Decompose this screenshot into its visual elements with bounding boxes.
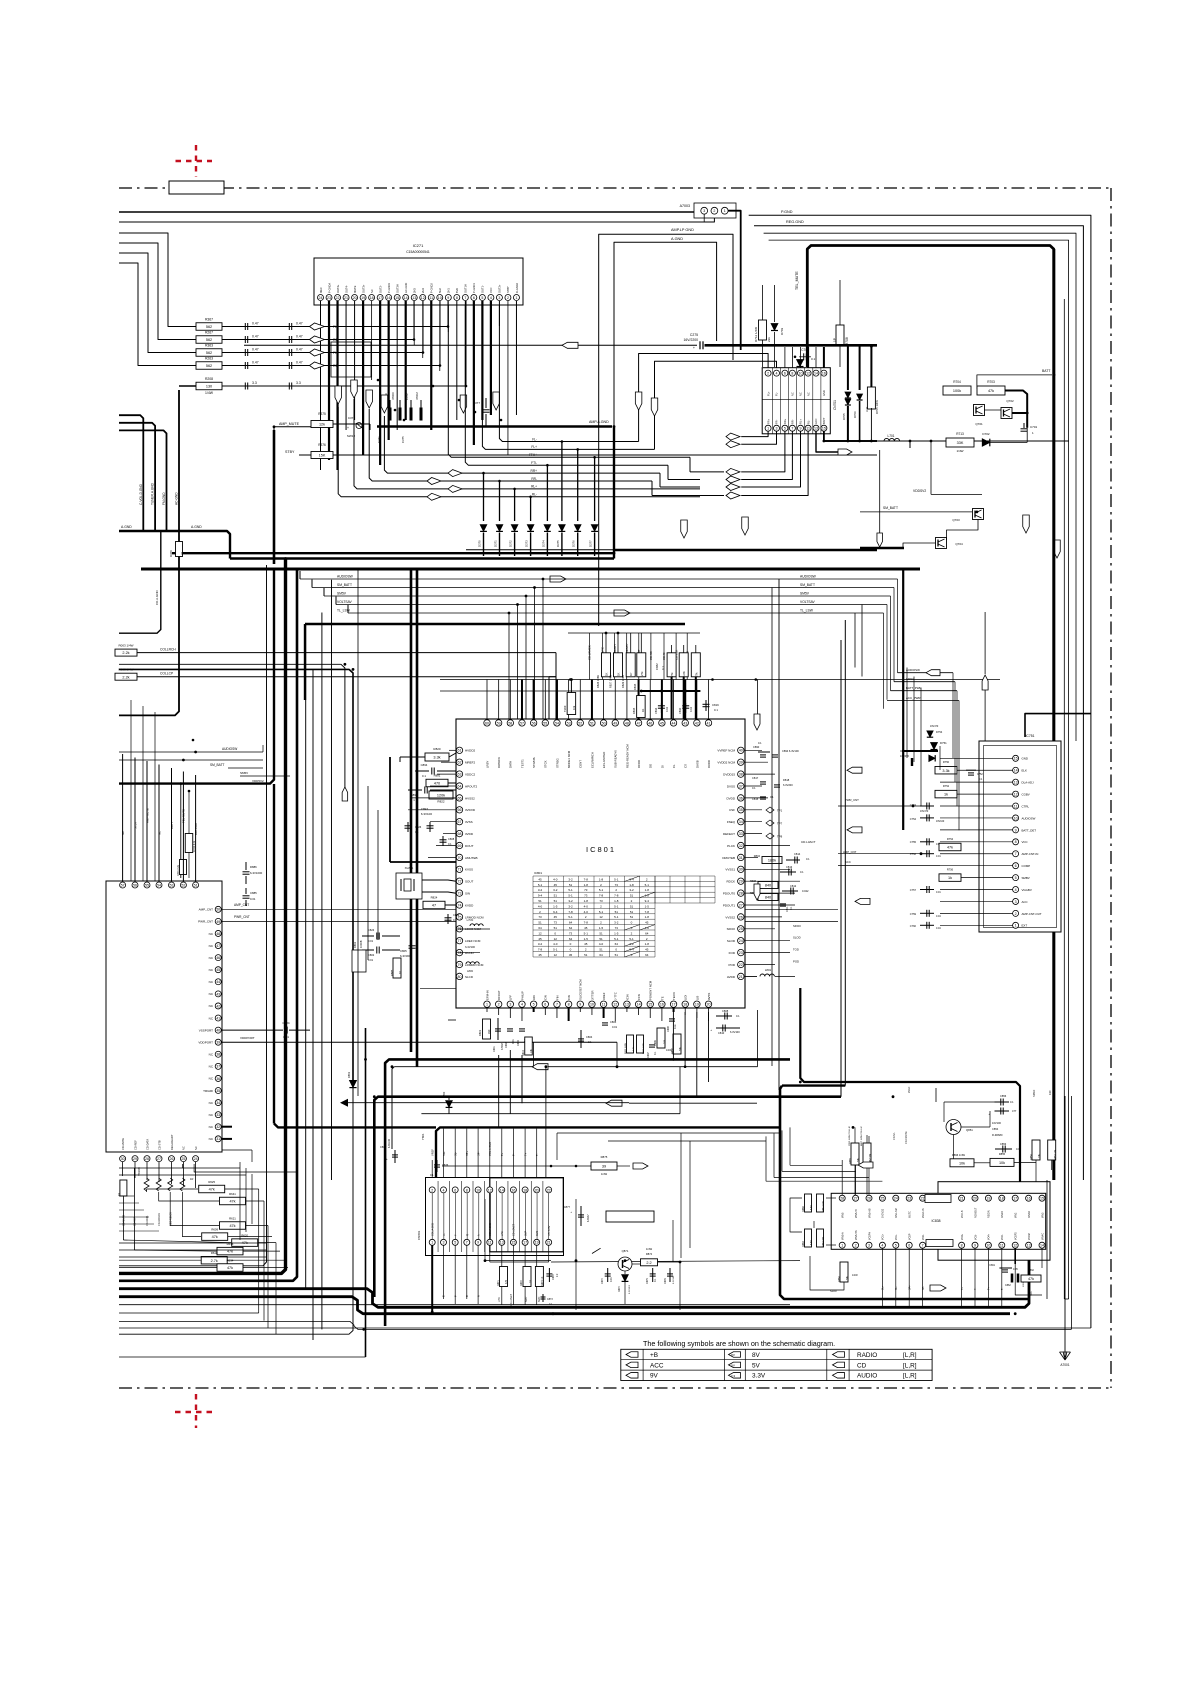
left block bottom pins [120, 1156, 126, 1162]
diode D750 [931, 743, 938, 750]
diode D752 [929, 755, 935, 761]
capacitor C814 [786, 859, 800, 861]
svg-text:45: 45 [538, 877, 542, 881]
pin IC801 48 [624, 720, 630, 726]
svg-text:L801: L801 [765, 968, 772, 972]
arrow bus diamonds [448, 470, 462, 477]
svg-text:37: 37 [216, 1065, 220, 1069]
svg-text:TUNER.A.GND: TUNER.A.GND [151, 482, 155, 505]
pin IC801 15 [647, 1001, 653, 1007]
wire q871 net [485, 1260, 551, 1262]
svg-text:D754: D754 [936, 730, 943, 734]
svg-text:10: 10 [438, 296, 442, 300]
svg-text:71: 71 [458, 868, 462, 872]
svg-text:PLCK: PLCK [727, 844, 735, 848]
pin left block top 56 [132, 882, 138, 888]
legend row 3 arrow3 [833, 1373, 845, 1379]
pin IC801 37 [738, 783, 744, 789]
svg-text:7: 7 [791, 427, 793, 431]
svg-text:53: 53 [170, 883, 174, 887]
svg-text:C882: C882 [655, 663, 659, 670]
svg-text:26: 26 [739, 915, 743, 919]
svg-text:R701 2.2k: R701 2.2k [177, 864, 180, 876]
svg-text:A.GND: A.GND [671, 237, 683, 241]
svg-text:VO2P: VO2P [909, 1233, 912, 1240]
pin IC801 24 [738, 938, 744, 944]
svg-text:33K: 33K [957, 441, 964, 445]
svg-text:1k: 1k [948, 876, 952, 880]
svg-text:FL+: FL+ [766, 391, 770, 396]
resistor R713 [946, 438, 974, 447]
svg-text:47: 47 [432, 904, 436, 908]
svg-text:DVDD15: DVDD15 [723, 773, 735, 777]
pin IC801 50 [600, 720, 606, 726]
pin IC801 65 [456, 795, 462, 801]
svg-text:C877: C877 [564, 1205, 571, 1209]
svg-text:2.2: 2.2 [646, 1261, 651, 1265]
svg-text:D374: D374 [541, 540, 545, 547]
capacitor C823 [362, 935, 374, 937]
svg-text:+B: +B [650, 1352, 658, 1359]
wire P.GND branch [1025, 714, 1091, 737]
svg-text:DEFECT: DEFECT [723, 832, 735, 836]
wire TEL_MUTE thick loop [807, 246, 1053, 1181]
svg-text:RR: RR [333, 364, 339, 368]
pin IC801 40 [738, 747, 744, 753]
svg-text:16V100: 16V100 [936, 820, 945, 823]
svg-text:Q851: Q851 [966, 1128, 973, 1132]
wire CD.A.GND [119, 531, 161, 633]
svg-text:CD-DATA: CD-DATA [145, 1139, 149, 1150]
svg-text:3.3k: 3.3k [433, 756, 440, 760]
wire bottom thin 2 [119, 1327, 1091, 1329]
pin IC801 46 [647, 720, 653, 726]
wire row4 link [196, 365, 440, 367]
svg-text:2H3: 2H3 [413, 288, 417, 293]
svg-text:1/4W: 1/4W [956, 449, 963, 453]
wire thick vertical pair b [416, 569, 419, 1067]
svg-text:C829: C829 [453, 913, 460, 917]
svg-text:CIN: CIN [544, 995, 548, 1000]
pin IC801 69 [456, 842, 462, 848]
wire thick gnd h3 [141, 568, 920, 571]
svg-text:STBY: STBY [285, 450, 295, 454]
svg-text:R824: R824 [431, 896, 438, 900]
svg-text:24: 24 [194, 1157, 198, 1161]
svg-text:R713: R713 [956, 432, 964, 436]
svg-text:3-2: 3-2 [614, 921, 619, 925]
svg-text:48: 48 [625, 721, 629, 725]
svg-text:DATA: DATA [509, 761, 513, 768]
svg-text:5-1: 5-1 [614, 904, 619, 908]
wire speaker bus FTH+ riser [448, 305, 594, 457]
svg-text:VIN5: VIN5 [842, 1212, 845, 1218]
svg-text:J-TTC: J-TTC [614, 992, 618, 1000]
wire input [137, 652, 556, 654]
svg-text:AMP-CNT-IN: AMP-CNT-IN [1022, 852, 1039, 856]
capacitor C877 [580, 1206, 582, 1226]
capacitor C755 [920, 841, 934, 843]
svg-text:CN801: CN801 [417, 1230, 421, 1240]
svg-text:Q: Q [466, 1234, 469, 1236]
pin IC801 35 [738, 807, 744, 813]
wire mid verticals down [672, 1220, 674, 1262]
svg-text:C853: C853 [1000, 1142, 1007, 1146]
svg-text:STREG: STREG [555, 758, 559, 768]
svg-text:C802: C802 [368, 953, 375, 957]
svg-text:B: B [465, 1295, 469, 1297]
wire CN701 pin15 BATT thick [824, 431, 877, 441]
resistor R704 [943, 386, 971, 395]
capacitor C810 [716, 1027, 740, 1029]
svg-text:RDCK: RDCK [726, 880, 735, 884]
svg-text:VVSS1: VVSS1 [725, 868, 735, 872]
svg-text:PONONT NCM: PONONT NCM [649, 980, 653, 1000]
svg-text:29: 29 [739, 880, 743, 884]
capacitor C269 [250, 339, 287, 341]
resistor R634 [217, 1264, 243, 1272]
svg-text:OUT3H: OUT3H [395, 284, 399, 293]
svg-text:0.1: 0.1 [806, 857, 810, 861]
svg-text:14: 14 [404, 296, 408, 300]
svg-text:3: 3 [1015, 900, 1017, 904]
svg-text:15: 15 [822, 427, 826, 431]
svg-text:63: 63 [458, 773, 462, 777]
wire plck [744, 845, 790, 847]
svg-text:6.3V200: 6.3V200 [783, 783, 793, 787]
svg-text:12: 12 [538, 931, 542, 935]
pin IC801 56 [530, 720, 536, 726]
svg-text:0.01: 0.01 [368, 958, 374, 962]
svg-text:1K: 1K [617, 672, 621, 676]
svg-text:44: 44 [672, 721, 676, 725]
svg-text:R875: R875 [601, 1155, 608, 1159]
svg-text:RR-: RR- [791, 419, 795, 424]
wire speaker bus RL+ riser [354, 399, 515, 489]
svg-text:R754: R754 [947, 837, 954, 841]
svg-text:PDOUT0: PDOUT0 [723, 892, 736, 896]
svg-text:CD-LDNET: CD-LDNET [510, 1293, 513, 1306]
wire right bundle batt thick [1053, 249, 1056, 1180]
capacitor C885 [245, 888, 247, 894]
svg-text:4: 4 [490, 296, 492, 300]
svg-text:10k: 10k [999, 1161, 1005, 1165]
resistor R620 [232, 1239, 258, 1247]
wires block bottom to staircase [194, 1164, 296, 1172]
svg-text:C812: C812 [790, 884, 797, 888]
svg-text:0.1: 0.1 [811, 357, 816, 361]
wire pins 31 32 stubs [222, 1126, 233, 1128]
svg-text:0.04: 0.04 [936, 927, 941, 930]
svg-text:0.1: 0.1 [758, 741, 762, 745]
svg-text:3.3: 3.3 [252, 381, 257, 385]
connector CN801 [426, 1178, 564, 1256]
svg-text:R835: R835 [633, 683, 637, 690]
svg-text:R804: R804 [754, 854, 761, 858]
resistor R700 [185, 834, 193, 853]
pin IC838 5 [893, 1242, 899, 1248]
crystal XL801 [396, 873, 422, 899]
pin IC801 29 [738, 878, 744, 884]
pin CN801 top 18 [522, 1187, 528, 1193]
svg-text:NC: NC [806, 392, 810, 396]
svg-text:38: 38 [739, 773, 743, 777]
resistor R801 [483, 1019, 491, 1039]
svg-text:STCK: STCK [544, 760, 548, 768]
wire left bus SM_BATT [119, 759, 263, 761]
transistor Q851 [946, 1120, 961, 1135]
svg-text:RR+: RR+ [783, 418, 787, 424]
svg-text:CD-RMRCK: CD-RMRCK [158, 1213, 161, 1226]
svg-text:IC838: IC838 [931, 1219, 940, 1223]
svg-text:6: 6 [784, 372, 786, 376]
junction dots under IC271 [377, 379, 380, 382]
resistor R832 [673, 1034, 681, 1054]
svg-text:16V/2200: 16V/2200 [683, 338, 698, 342]
wire CN701 pin13 ACC [816, 431, 838, 452]
svg-text:53: 53 [567, 721, 571, 725]
svg-text:R872: R872 [520, 1280, 523, 1286]
svg-text:7: 7 [1015, 852, 1017, 856]
resistor R824 [423, 901, 445, 909]
wires staircase left [122, 1196, 124, 1240]
capacitor C884 [222, 1029, 284, 1031]
pin IC801 22 [738, 961, 744, 967]
svg-text:C275: C275 [690, 333, 698, 337]
wires bottom-left vertical risers [239, 1162, 241, 1240]
pin IC838 15 [1039, 1195, 1045, 1201]
pin IC801 45 [659, 720, 665, 726]
svg-text:4: 4 [443, 1188, 445, 1192]
svg-text:6.3V100: 6.3V100 [388, 1138, 391, 1148]
pin IC801 74 [456, 902, 462, 908]
svg-text:7: 7 [556, 1003, 558, 1007]
pin left block top 53 [169, 882, 175, 888]
svg-text:3: 3 [509, 1003, 511, 1007]
svg-text:14: 14 [1040, 1244, 1044, 1248]
svg-text:VCC: VCC [1022, 840, 1028, 844]
page border dash-dot right [1110, 188, 1112, 1388]
diode D703 [771, 324, 778, 331]
wire thick vertical pair a [410, 569, 413, 1052]
svg-text:FSEQ: FSEQ [727, 820, 736, 824]
svg-text:9: 9 [1015, 828, 1017, 832]
svg-text:24: 24 [739, 939, 743, 943]
wire AMP.A.GND thick [377, 425, 612, 427]
svg-text:[L,R]: [L,R] [903, 1373, 917, 1380]
svg-text:MUTC: MUTC [909, 1211, 912, 1218]
wire thick cn801 area [436, 1127, 779, 1177]
svg-text:1/4W: 1/4W [852, 1274, 858, 1277]
svg-text:C808: C808 [448, 837, 455, 841]
svg-text:0.01: 0.01 [368, 939, 374, 943]
svg-text:7: 7 [464, 296, 466, 300]
svg-text:R801: R801 [478, 1029, 482, 1036]
pin CN701 7 [789, 425, 795, 431]
pin IC801 32 [738, 842, 744, 848]
wire P.GND loop [749, 215, 1091, 1328]
svg-text:RCRD: RCRD [637, 760, 641, 768]
svg-text:25: 25 [739, 927, 743, 931]
svg-text:C834: C834 [654, 707, 658, 714]
svg-text:26: 26 [170, 1157, 174, 1161]
capacitor C856 [995, 1101, 1010, 1103]
svg-text:3.3k: 3.3k [942, 769, 949, 773]
wire feed row5 [179, 385, 196, 387]
svg-text:51: 51 [194, 883, 198, 887]
svg-text:57: 57 [520, 721, 524, 725]
wire speaker bus RR- riser [369, 409, 499, 481]
svg-text:55: 55 [543, 721, 547, 725]
svg-text:5: 5 [454, 1241, 456, 1245]
svg-text:15: 15 [1014, 757, 1018, 761]
wire thick h 1096 [374, 1097, 841, 1297]
pin left block 33 [215, 1112, 221, 1118]
svg-text:C885: C885 [250, 891, 257, 895]
svg-text:CD.L3ACT: CD.L3ACT [801, 840, 816, 844]
capacitor C801 [497, 1018, 499, 1040]
svg-text:14: 14 [500, 1188, 504, 1192]
wire bottom left knot [119, 1242, 267, 1244]
pin IC801 41 [705, 720, 711, 726]
svg-text:0.1: 0.1 [736, 1014, 740, 1018]
resistor R819 [567, 693, 576, 715]
svg-text:NC: NC [182, 1146, 186, 1150]
wire corridor verticals [545, 1067, 547, 1177]
svg-text:5-1: 5-1 [599, 888, 604, 892]
svg-text:TL_LSW: TL_LSW [337, 609, 351, 613]
svg-text:OUT3+: OUT3+ [361, 284, 365, 293]
svg-text:47: 47 [637, 721, 641, 725]
wire VDDSV2 [930, 448, 932, 494]
svg-text:R826 1/4W: R826 1/4W [596, 674, 600, 688]
svg-text:9: 9 [447, 296, 449, 300]
pin IC801 77 [456, 938, 462, 944]
registration mark bottom red [175, 1394, 217, 1428]
resistor R754 [939, 843, 961, 851]
connector A7003 [694, 203, 736, 218]
wires IC801 top pin stubs [486, 680, 488, 720]
svg-text:7: 7 [922, 1244, 924, 1248]
svg-text:47000: 47000 [391, 392, 395, 400]
wires Q851 area [944, 1101, 995, 1103]
wires IC838 left staircase [790, 1164, 842, 1166]
svg-text:1P: 1P [833, 338, 837, 342]
wire feed row1 [119, 233, 196, 327]
svg-text:GND: GND [822, 390, 826, 396]
pin IC801 16 [659, 1001, 665, 1007]
svg-text:6: 6 [473, 296, 475, 300]
svg-text:0.1k: 0.1k [674, 1024, 677, 1029]
pin IC838 7 [920, 1242, 926, 1248]
pin IC801 17 [670, 1001, 676, 1007]
svg-text:TEST1: TEST1 [520, 759, 524, 768]
svg-text:P-GNDA: P-GNDA [327, 283, 331, 293]
svg-text:6-3V1000: 6-3V1000 [250, 871, 263, 875]
border title box [169, 181, 224, 194]
wire A7003 pin3 drop [703, 214, 705, 222]
svg-text:LCL.A.3V: LCL.A.3V [548, 1225, 551, 1236]
svg-text:1/4W: 1/4W [601, 1172, 608, 1176]
svg-text:KIN20: KIN20 [1001, 1211, 1004, 1218]
svg-text:D373: D373 [525, 540, 529, 547]
svg-text:C815: C815 [752, 797, 759, 801]
svg-text:37: 37 [739, 784, 743, 788]
pin IC801 2 [495, 1001, 501, 1007]
svg-text:C813: C813 [786, 865, 793, 869]
svg-text:TOD: TOD [793, 948, 799, 952]
svg-text:The following symbols are show: The following symbols are shown on the s… [643, 1339, 835, 1348]
pin IC838 6 [906, 1242, 912, 1248]
svg-text:AIN: AIN [532, 995, 536, 1000]
pin CN701 9 [798, 425, 804, 431]
svg-text:2H4: 2H4 [421, 288, 425, 293]
legend row 3 arrow2 [729, 1373, 741, 1379]
wire thin corridor v 305 [305, 624, 307, 1288]
pin IC801 70 [456, 854, 462, 860]
pin CN801 bottom 3 [441, 1239, 447, 1245]
resistors R860 R863 [805, 1229, 812, 1247]
svg-text:C876: C876 [664, 1278, 667, 1284]
svg-text:7-8: 7-8 [584, 877, 589, 881]
svg-text:VO3-: VO3- [974, 1234, 977, 1240]
wire BATT node [824, 440, 877, 442]
svg-text:3.3: 3.3 [731, 1374, 736, 1378]
wire REG.GND loop [754, 226, 1083, 1180]
svg-text:3-2: 3-2 [553, 888, 558, 892]
svg-text:1-8: 1-8 [584, 883, 589, 887]
pin left block top 52 [180, 882, 186, 888]
wire drop to diode [499, 481, 501, 521]
wire CN701 thick gnd bus [705, 344, 878, 347]
svg-text:R861 6.8k: R861 6.8k [822, 1200, 825, 1212]
svg-text:3VDXD: 3VDXD [465, 808, 476, 812]
svg-text:A7001: A7001 [1060, 1363, 1069, 1367]
svg-text:SM_BATT: SM_BATT [210, 763, 225, 767]
svg-text:17: 17 [378, 296, 382, 300]
svg-text:8V: 8V [731, 1353, 735, 1357]
svg-text:D705: D705 [842, 413, 846, 420]
svg-text:26: 26 [867, 1197, 871, 1201]
svg-text:0.01: 0.01 [936, 855, 941, 858]
svg-text:0.47: 0.47 [252, 335, 259, 339]
wire corridor v 358 [357, 569, 359, 1096]
svg-text:15: 15 [511, 1241, 515, 1245]
svg-text:6-3V100: 6-3V100 [465, 945, 475, 949]
wire q703 down [947, 520, 979, 541]
svg-text:2: 2 [507, 296, 509, 300]
capacitor C367 [222, 326, 243, 328]
svg-text:9-4: 9-4 [538, 894, 543, 898]
svg-text:130: 130 [206, 385, 212, 389]
svg-text:10: 10 [590, 1003, 594, 1007]
svg-text:C830: C830 [678, 707, 682, 714]
pin IC801 21 [738, 973, 744, 979]
svg-text:+: + [386, 1157, 388, 1161]
resistor R369 [176, 542, 183, 557]
svg-text:39: 39 [739, 761, 743, 765]
wire AMP_MUTE thick drop [273, 430, 276, 564]
wire vertical 757 to corridor [757, 680, 759, 715]
svg-text:7-8: 7-8 [599, 894, 604, 898]
wire thin corridor v 266 [119, 565, 267, 1266]
svg-text:9: 9 [477, 1241, 479, 1245]
pin CN701 1 [765, 425, 771, 431]
pin left block 39 [215, 1039, 221, 1045]
svg-text:12: 12 [806, 372, 810, 376]
wire left bus VDD5V2 [240, 775, 290, 777]
svg-text:7-8: 7-8 [584, 921, 589, 925]
